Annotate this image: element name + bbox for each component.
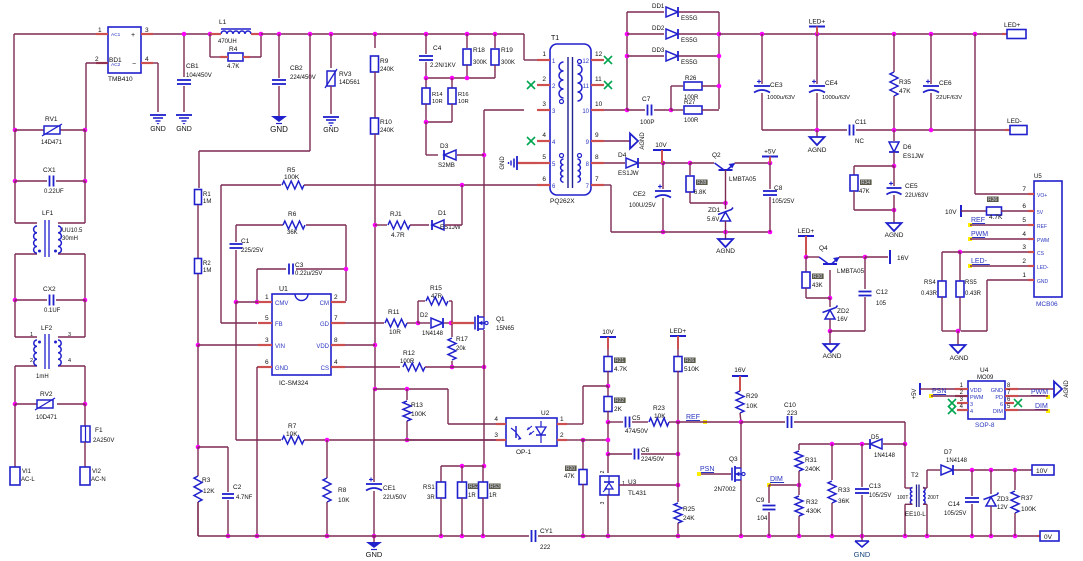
svg-text:C3: C3 <box>295 262 304 269</box>
wire left col RV1 to CX1 <box>15 130 85 181</box>
wire FB row <box>221 185 281 323</box>
svg-text:24K: 24K <box>683 515 695 522</box>
svg-text:4: 4 <box>970 409 973 415</box>
svg-text:1: 1 <box>30 332 33 338</box>
svg-text:1M: 1M <box>203 199 211 205</box>
svg-text:16V: 16V <box>837 317 848 323</box>
svg-text:LED+: LED+ <box>809 19 826 26</box>
svg-text:16V: 16V <box>734 367 746 374</box>
wire CB2 top <box>278 34 280 78</box>
svg-text:10V: 10V <box>945 209 957 216</box>
transistor Q4 LMBTA05 <box>806 245 865 300</box>
svg-text:10R: 10R <box>432 99 443 105</box>
svg-text:C8: C8 <box>774 185 783 192</box>
svg-text:R16: R16 <box>458 92 469 98</box>
svg-text:GND: GND <box>1037 279 1049 285</box>
ground GND chevron <box>854 536 871 559</box>
wire BD1 pin2 down-left <box>86 63 108 130</box>
resistor R3 12K <box>194 447 215 536</box>
resistor R20 47K <box>564 438 587 539</box>
capacitor C8 105/25V <box>763 163 794 232</box>
svg-text:+5V: +5V <box>764 149 776 156</box>
svg-text:10: 10 <box>582 109 589 115</box>
net label REF to U5 <box>968 217 1028 227</box>
svg-text:7: 7 <box>334 315 338 322</box>
svg-text:3: 3 <box>542 101 546 108</box>
wire BD1 pin4 to GND <box>153 63 158 112</box>
svg-text:104: 104 <box>757 515 768 522</box>
svg-text:T1: T1 <box>551 35 559 42</box>
mosfet Q3 2N7002 <box>699 422 745 536</box>
net label PSN at U4 <box>929 388 968 398</box>
svg-text:D2: D2 <box>420 312 428 319</box>
svg-text:CX1: CX1 <box>43 167 56 174</box>
resistor R15 47R <box>418 285 452 323</box>
svg-text:10V: 10V <box>1036 468 1048 475</box>
svg-text:10K: 10K <box>286 431 298 438</box>
svg-text:8: 8 <box>334 337 338 344</box>
resistor RS3 1R <box>479 466 501 536</box>
svg-text:1M: 1M <box>203 268 211 274</box>
wire U5 GND down <box>961 280 1028 331</box>
svg-text:1: 1 <box>542 51 546 58</box>
svg-text:2: 2 <box>560 432 564 439</box>
transformer T2 EE10-L <box>897 444 939 536</box>
wire Q4 emitter to 16V <box>839 255 888 260</box>
capacitor CY1 222 <box>532 528 584 551</box>
diode D6 ES1JW <box>889 130 924 168</box>
wire LED+ rail <box>719 32 1002 37</box>
resistor R22 2K <box>604 386 626 424</box>
capacitor C10 223 <box>741 402 907 446</box>
svg-text:22U/50V: 22U/50V <box>383 495 406 501</box>
svg-text:430K: 430K <box>806 508 822 515</box>
terminal 0V output <box>1037 531 1059 541</box>
svg-text:470UH: 470UH <box>218 39 237 45</box>
svg-text:CB2: CB2 <box>290 65 303 72</box>
capacitor C11 NC <box>850 119 867 145</box>
resistor R1 1M <box>195 190 212 206</box>
svg-text:CY1: CY1 <box>540 528 553 535</box>
svg-text:10: 10 <box>595 101 603 108</box>
svg-text:VDD: VDD <box>970 388 982 394</box>
svg-text:47K: 47K <box>564 474 575 480</box>
svg-text:100P: 100P <box>640 119 654 126</box>
svg-text:CX2: CX2 <box>43 286 56 293</box>
svg-text:1R: 1R <box>468 493 476 499</box>
agnd below ZD1 <box>716 232 735 255</box>
resistor R13 100K <box>403 389 427 442</box>
agnd under CE5 <box>885 210 904 239</box>
svg-text:7: 7 <box>595 176 599 183</box>
svg-text:47R: 47R <box>431 294 443 300</box>
wire CB1 top <box>183 34 185 77</box>
svg-text:100U/25V: 100U/25V <box>629 203 656 209</box>
svg-text:1N4148: 1N4148 <box>422 331 444 337</box>
svg-text:T2: T2 <box>911 472 919 479</box>
resistor RS5 0.43R <box>956 280 982 333</box>
shunt reg U3 TL431 <box>600 454 647 538</box>
svg-text:LF1: LF1 <box>42 210 54 217</box>
common-mode choke LF1 UU10.5 30mH <box>15 210 85 257</box>
varistor RV3 14D561 <box>325 69 361 114</box>
wire Q1 drain <box>482 110 487 317</box>
svg-text:R12: R12 <box>403 350 415 357</box>
op-amp U1 IC-SM324 <box>258 286 345 387</box>
power flag +5V at U4 <box>912 383 955 399</box>
svg-text:TMB410: TMB410 <box>108 76 133 83</box>
svg-text:105: 105 <box>876 301 887 307</box>
svg-text:LF2: LF2 <box>41 325 53 332</box>
svg-text:R34: R34 <box>861 180 870 186</box>
svg-text:15N65: 15N65 <box>496 325 515 332</box>
svg-text:1: 1 <box>560 416 564 423</box>
node L1 left <box>208 32 213 37</box>
svg-text:ZD1: ZD1 <box>708 207 721 214</box>
ic U4 MO09 SOP-8 <box>955 367 1018 429</box>
svg-text:GND: GND <box>176 126 192 133</box>
svg-text:R10: R10 <box>380 119 392 126</box>
agnd at U4 pin8 <box>1018 380 1070 398</box>
svg-text:2: 2 <box>95 56 99 63</box>
power flag 10V at R36 <box>945 205 986 217</box>
svg-text:10V: 10V <box>602 329 614 336</box>
capacitor C13 105/25V <box>855 444 891 536</box>
svg-text:1: 1 <box>1022 272 1026 279</box>
svg-text:5: 5 <box>542 154 546 161</box>
resistor R28 6.8K <box>686 163 728 205</box>
svg-text:3: 3 <box>970 402 973 408</box>
capacitor C1 225/25V <box>230 225 264 302</box>
svg-text:R11: R11 <box>388 309 400 316</box>
no-connect X U4 pin6 <box>1014 399 1022 407</box>
svg-text:3: 3 <box>265 337 269 344</box>
capacitor C12 105 <box>830 257 888 331</box>
svg-text:AGND: AGND <box>823 353 842 360</box>
svg-text:12: 12 <box>582 59 589 65</box>
svg-text:47K: 47K <box>859 189 870 195</box>
resistor R29 10K <box>736 391 758 424</box>
svg-text:MCB06: MCB06 <box>1036 301 1058 308</box>
svg-text:GD: GD <box>320 322 330 328</box>
net label PWM at U4 pin7 <box>1018 389 1050 399</box>
svg-text:1N4148: 1N4148 <box>874 453 896 459</box>
svg-text:DIM: DIM <box>1035 403 1048 410</box>
svg-text:R15: R15 <box>430 285 442 292</box>
svg-text:222: 222 <box>540 544 551 551</box>
svg-text:RS4: RS4 <box>924 280 936 286</box>
svg-text:AGND: AGND <box>885 232 904 239</box>
svg-text:SOP-8: SOP-8 <box>975 422 995 429</box>
wire Q2 emitter to 5V <box>768 161 773 166</box>
wire R7 row <box>236 439 281 441</box>
svg-text:10D471: 10D471 <box>36 415 58 421</box>
svg-text:D3: D3 <box>440 143 449 150</box>
svg-text:47K: 47K <box>899 88 911 95</box>
svg-text:U4: U4 <box>980 367 989 374</box>
no-connect X pin11 <box>604 81 612 89</box>
capacitor C6 224/50V <box>606 422 681 463</box>
svg-text:ZD3: ZD3 <box>997 496 1009 503</box>
resistor R5 100K <box>282 167 304 189</box>
wire R2 to VIN node <box>197 274 199 345</box>
svg-text:U2: U2 <box>541 410 550 417</box>
wire R6 row <box>236 225 346 301</box>
no-connect X pin4 <box>527 137 535 145</box>
svg-text:R21: R21 <box>615 358 624 364</box>
svg-text:5: 5 <box>265 315 269 322</box>
no-connect X pin2 <box>527 81 535 89</box>
svg-text:4.7R: 4.7R <box>391 232 405 239</box>
resistor R17 20k <box>448 323 468 369</box>
svg-text:GND: GND <box>275 366 289 372</box>
svg-text:LED-: LED- <box>1007 118 1022 125</box>
svg-text:Q3: Q3 <box>729 456 738 463</box>
resistor R36 4.7K <box>987 197 1029 222</box>
wire U2 pin2 row <box>567 438 610 443</box>
wire VIN node down to R3 <box>196 345 201 449</box>
svg-text:ES1JW: ES1JW <box>903 153 924 160</box>
svg-text:5: 5 <box>1022 217 1026 224</box>
svg-text:LED+: LED+ <box>670 328 687 335</box>
svg-text:100T: 100T <box>897 495 908 501</box>
svg-text:MO09: MO09 <box>977 375 994 381</box>
node VIN <box>196 343 201 348</box>
svg-text:R14: R14 <box>432 92 443 98</box>
svg-text:IC-SM324: IC-SM324 <box>279 380 309 387</box>
svg-text:ES1JW: ES1JW <box>618 170 639 177</box>
svg-text:12: 12 <box>595 51 603 58</box>
wire VDD pin8 <box>345 344 375 346</box>
svg-text:C10: C10 <box>784 402 796 409</box>
resistor R25 24K <box>674 485 695 538</box>
svg-text:R23: R23 <box>653 405 665 412</box>
capacitor CE5 22U/63V <box>887 166 929 210</box>
svg-text:7: 7 <box>1022 186 1026 193</box>
wire snubber mid rail <box>424 76 495 81</box>
svg-text:R30: R30 <box>813 274 822 280</box>
svg-text:R9: R9 <box>380 58 389 65</box>
resistor R33 36K <box>828 444 850 536</box>
wire sense node rail <box>441 464 486 482</box>
svg-text:R36: R36 <box>988 197 997 203</box>
wire pin10 row <box>604 12 629 112</box>
net label REF mid <box>678 414 741 424</box>
svg-text:43K: 43K <box>812 283 823 289</box>
resistor R32 430K <box>795 485 822 536</box>
svg-text:1N4148: 1N4148 <box>946 458 968 464</box>
svg-text:PWM: PWM <box>970 395 984 401</box>
svg-text:510K: 510K <box>684 366 700 373</box>
svg-text:LED+: LED+ <box>798 228 815 235</box>
svg-text:10R: 10R <box>389 329 401 336</box>
svg-text:14D471: 14D471 <box>41 140 63 146</box>
svg-text:Q1: Q1 <box>496 316 505 323</box>
svg-text:100K: 100K <box>284 174 300 181</box>
svg-text:REF: REF <box>1037 224 1047 230</box>
svg-text:R4: R4 <box>229 46 238 53</box>
svg-text:R26: R26 <box>685 358 694 364</box>
svg-text:6: 6 <box>1000 402 1003 408</box>
svg-text:R25: R25 <box>683 506 695 513</box>
svg-text:DD3: DD3 <box>652 47 665 54</box>
svg-text:3R: 3R <box>427 495 435 501</box>
svg-text:RV2: RV2 <box>40 391 53 398</box>
svg-text:VI2: VI2 <box>92 469 102 475</box>
power flag LED+ on rail <box>809 19 826 35</box>
svg-text:22UF/63V: 22UF/63V <box>936 95 962 101</box>
svg-text:R20: R20 <box>566 466 575 472</box>
svg-text:4: 4 <box>542 132 546 139</box>
resistor R2 1M <box>195 259 212 275</box>
svg-text:0.1UF: 0.1UF <box>44 308 61 314</box>
svg-text:LED-: LED- <box>1037 265 1049 271</box>
svg-text:Q2: Q2 <box>712 152 721 159</box>
wire U1 GND pin6 down <box>255 367 260 538</box>
wire CMV row <box>234 300 272 440</box>
svg-text:2: 2 <box>1022 258 1026 265</box>
ground GND under CB1 <box>176 115 192 133</box>
svg-text:NC: NC <box>855 138 864 145</box>
svg-text:104/450V: 104/450V <box>186 73 212 79</box>
svg-text:EE10-L: EE10-L <box>905 511 926 518</box>
svg-text:R32: R32 <box>806 499 818 506</box>
svg-text:LMBTA05: LMBTA05 <box>729 176 757 183</box>
svg-text:2N7002: 2N7002 <box>714 486 736 493</box>
wire VDD vertical from R10 <box>373 134 378 389</box>
wire CS to RS4 RS5 <box>942 250 1028 281</box>
svg-text:VIN: VIN <box>275 344 285 350</box>
wire RV3 top <box>330 34 332 68</box>
power flag 10V at R21 <box>600 329 616 349</box>
svg-text:30mH: 30mH <box>62 236 78 242</box>
power flag 16V at R29 <box>732 367 748 391</box>
svg-text:20k: 20k <box>456 346 467 352</box>
svg-text:R27: R27 <box>684 99 696 106</box>
svg-text:14D561: 14D561 <box>339 80 361 86</box>
svg-text:OP-1: OP-1 <box>516 449 532 456</box>
svg-text:Q4: Q4 <box>819 245 828 252</box>
svg-text:224/50V: 224/50V <box>641 456 665 463</box>
no-connect X pin12 <box>604 56 612 64</box>
no-connect X U4 pin3 <box>948 399 956 407</box>
svg-text:ES5G: ES5G <box>681 59 698 66</box>
svg-text:AC-L: AC-L <box>21 477 35 483</box>
svg-text:8: 8 <box>595 154 599 161</box>
net label PWM to U5 <box>968 231 1028 241</box>
svg-text:R19: R19 <box>501 47 513 54</box>
common-mode choke LF2 1mH <box>15 325 85 380</box>
svg-text:AGND: AGND <box>1064 380 1070 398</box>
svg-text:VI1: VI1 <box>22 469 32 475</box>
svg-text:16V: 16V <box>897 255 909 262</box>
svg-text:D7: D7 <box>944 449 952 456</box>
svg-text:1: 1 <box>265 294 269 301</box>
svg-text:3: 3 <box>145 27 149 34</box>
svg-text:225/25V: 225/25V <box>241 248 263 254</box>
svg-text:240K: 240K <box>380 128 394 134</box>
net label DIM at C9 <box>767 476 801 487</box>
varistor RV1 14D471 <box>13 116 88 146</box>
svg-text:RS5: RS5 <box>965 280 977 286</box>
wire GD row <box>345 322 384 324</box>
diode DD3 ES5G <box>627 47 721 66</box>
svg-text:TL431: TL431 <box>628 490 647 497</box>
wire RV2 to VI1 <box>14 404 16 467</box>
svg-text:R5: R5 <box>287 167 296 174</box>
wire pin1 drop <box>524 34 537 60</box>
wire CX2 to LF2 <box>15 300 85 337</box>
svg-text:C6: C6 <box>641 447 650 454</box>
agnd below Q4 <box>823 331 842 360</box>
svg-text:R33: R33 <box>838 487 850 494</box>
svg-text:DIM: DIM <box>770 476 783 483</box>
power flag 16V right <box>890 250 909 264</box>
svg-text:474/50V: 474/50V <box>625 428 649 435</box>
svg-text:C4: C4 <box>433 45 442 52</box>
svg-text:3: 3 <box>494 432 498 439</box>
svg-text:C9: C9 <box>756 497 765 504</box>
wire D4 row to R28 <box>663 161 692 166</box>
resistor R9 240K <box>371 34 395 73</box>
svg-text:S2MB: S2MB <box>438 162 455 169</box>
diode DD1 ES5G <box>627 3 719 109</box>
svg-text:1mH: 1mH <box>36 374 49 380</box>
diode D1 ES1JW <box>432 210 462 231</box>
resistor R23 10K <box>649 405 678 426</box>
svg-text:D1: D1 <box>438 210 447 217</box>
svg-text:C14: C14 <box>948 501 960 508</box>
svg-text:R28: R28 <box>697 180 706 186</box>
svg-text:RV3: RV3 <box>339 71 352 78</box>
svg-text:PWM: PWM <box>1031 389 1048 396</box>
svg-text:+: + <box>131 32 135 39</box>
svg-text:DD1: DD1 <box>652 3 665 10</box>
diode D7 1N4148 <box>927 449 1032 475</box>
svg-text:R2: R2 <box>203 261 211 267</box>
svg-text:R6: R6 <box>288 211 297 218</box>
capacitor C4 2.2N/1KV <box>419 34 456 78</box>
resistor R18 300K <box>463 34 487 78</box>
svg-text:C11: C11 <box>855 119 867 126</box>
capacitor C7 100P <box>627 96 673 126</box>
svg-text:GND: GND <box>500 156 506 170</box>
no-connect X U4 pin4 <box>948 406 956 414</box>
wire bottom rail right <box>583 534 1037 539</box>
capacitor C3 0.22u/25V <box>289 262 322 277</box>
wire CS row <box>345 366 400 368</box>
wire VO+ drop <box>975 34 1028 194</box>
svg-text:LED+: LED+ <box>1004 22 1021 29</box>
resistor R34 47K <box>850 175 896 212</box>
power flag LED+ Q4 <box>798 228 815 259</box>
resistor R21 4.7K <box>604 349 628 388</box>
wire R5 to T1 pin6 <box>304 183 537 188</box>
wire top rail L1 to T1 <box>261 32 524 37</box>
capacitor CX1 0.22UF <box>13 167 88 195</box>
zener ZD3 12V <box>984 470 1010 536</box>
resistor R37 100K <box>1011 470 1037 536</box>
svg-text:R18: R18 <box>473 47 485 54</box>
svg-text:R17: R17 <box>456 336 468 343</box>
wire CX1 to LF1 <box>15 181 85 223</box>
diode DD2 ES5G <box>627 25 721 44</box>
capacitor C2 4.7NF <box>198 447 253 538</box>
wire VIN pin3 <box>198 344 258 346</box>
svg-text:6: 6 <box>1022 203 1026 210</box>
svg-text:GND: GND <box>854 550 871 559</box>
wire top rail BD1 to L1 <box>153 32 210 37</box>
